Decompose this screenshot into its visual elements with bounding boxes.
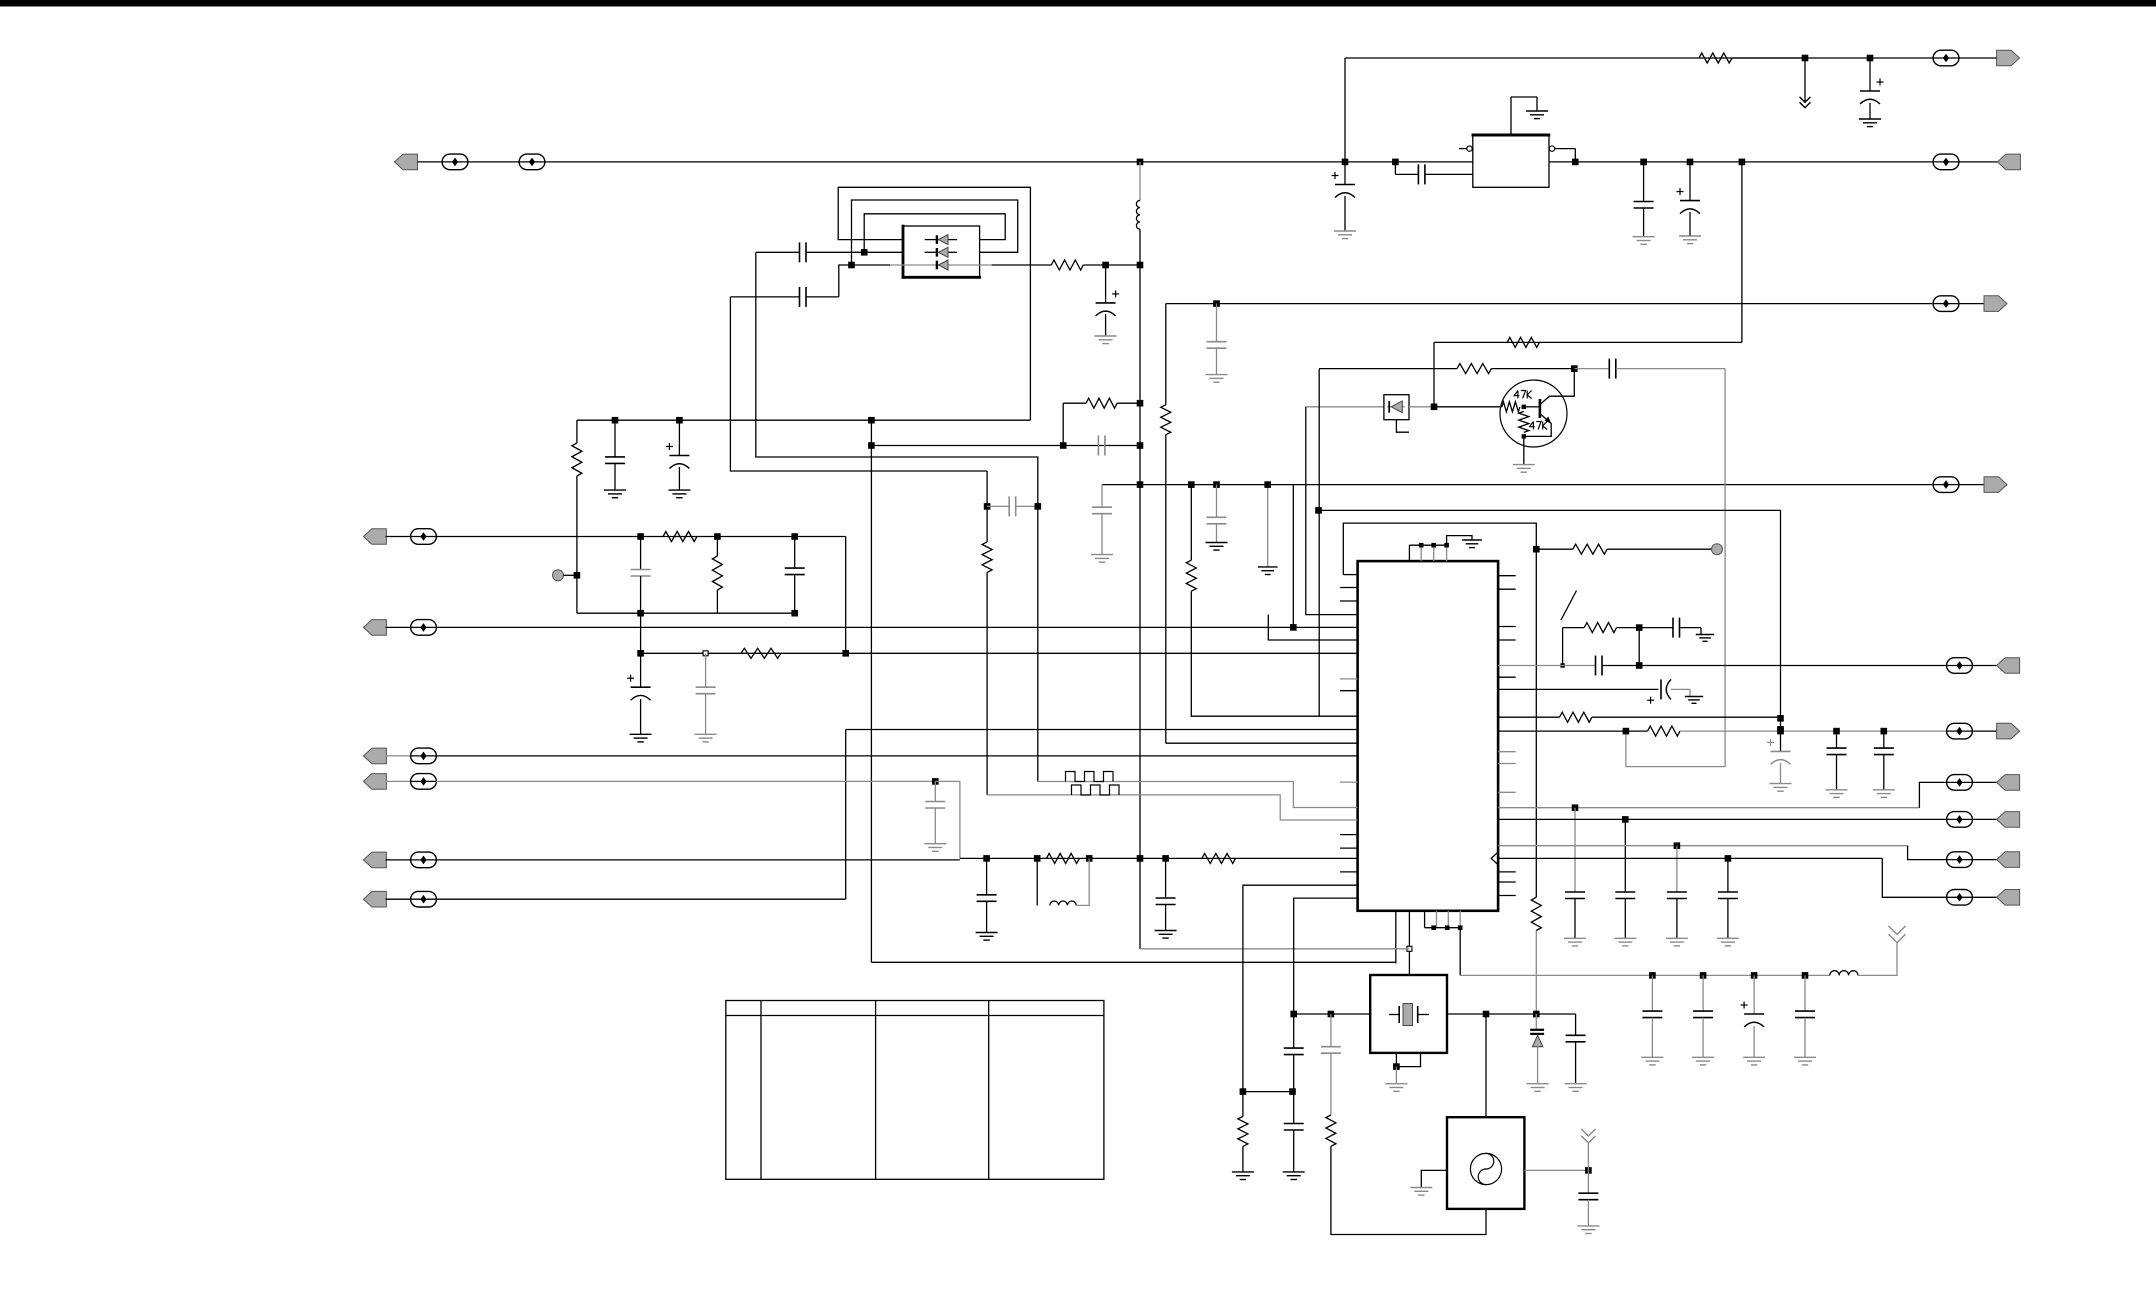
capacitor C-1870 polarized [1860,58,1884,119]
connector oval y897 [1947,890,1973,906]
wire x1639 drop [1638,628,1640,666]
RTC box U2 [1447,1117,1524,1209]
node x1140 y858 [1137,855,1144,862]
node y420 x871 [868,417,875,424]
node J1434 [1431,404,1438,411]
wire R368-J [1491,368,1574,370]
node J1574 [1571,365,1578,372]
ground below C-bank1 [1641,1057,1663,1065]
capacitor C-1625 [1615,819,1635,938]
wire RTC right [1524,1169,1588,1171]
node y858 x1166 [1162,855,1169,862]
wire arrow-oval y860 [386,859,411,861]
wire y484 [1102,484,1932,486]
ground below D-1536 [1527,1084,1549,1092]
wire y506 seg [987,505,1038,507]
wire VIN top y58 [1345,57,1933,59]
wire y407 mid [1409,406,1434,408]
IC clock wedge [1491,852,1498,865]
node RTC right [1585,1167,1592,1174]
wire rail A [545,161,1933,163]
chassis ground arrow below J1805 [1800,58,1811,108]
IC U1 body [1358,561,1499,911]
diode D1 in box [925,235,957,245]
connector oval y756 [411,748,437,764]
input arrow left y627 [363,620,386,636]
capacitor C-1575 [1565,808,1585,939]
capacitor C-1012h gray [1009,496,1016,516]
node y420 x615 [612,417,619,424]
wire VIN drop x1345 [1344,58,1346,162]
wire R-d3 to J [1083,264,1140,266]
node x1293 y1091 [1289,1088,1296,1095]
wire 641 to L4 [640,613,642,653]
connector oval y485 [1933,477,1959,493]
wire row5 [436,859,960,861]
wire y807 to conn [1919,782,1946,807]
crystal gnd tab [1396,1053,1420,1067]
wire row4 gray [436,780,935,782]
capacitor C-fb1 [756,242,864,262]
wire y445 [871,445,1140,447]
wire x1331 vertical [1321,1014,1341,1115]
input arrow right y162 [1997,154,2020,170]
node x1780 y718 [1777,715,1784,722]
IC bottom pin x1409 [1408,911,1410,975]
wire y1091 [1243,1091,1294,1093]
open node L4 x706 [703,651,708,656]
capacitor C-1216a gray [1207,304,1227,375]
wire pin716 [1186,485,1357,717]
node row4 x935 [932,778,939,785]
capacitor C-1728 [1718,858,1738,938]
open node x1409 y949 [1407,946,1412,951]
node y975 x1703 [1700,972,1707,979]
wire pulse gray [1038,782,1358,808]
ground x1268 [1258,567,1278,575]
node y731 x1884 [1881,728,1888,735]
IC bottom pin x1396 [1395,911,1397,964]
node ictop1 [1419,543,1424,548]
wire y963 [871,962,1395,963]
node y731 x1780 [1777,728,1784,735]
wire L2 [577,612,795,614]
node J1106-265 [1102,262,1109,269]
connector oval y781 [411,774,437,790]
node y484 x1191 [1188,481,1195,488]
wire res403 loop [1063,398,1140,445]
wire oval-arrow y58 [1959,57,1997,59]
node y807 x1575 [1572,804,1579,811]
input arrow left y860 [363,852,386,868]
wire D3 left lead [852,264,891,266]
wire outer loop [838,187,1030,420]
node y484 x1268 [1264,481,1271,488]
table frame [726,1001,1104,1180]
wire C689 gnd [1671,689,1703,703]
zener box D-Z [1384,395,1409,420]
wire arrow-oval y627 [386,626,411,628]
resistor R-47K-b [1519,411,1529,432]
ground below C-1345 [1334,231,1356,239]
ground below C-679 [668,490,690,498]
pin circle right U-REG [1549,146,1575,162]
node y1014 x1331 [1328,1011,1335,1018]
wire x1460 down [1459,928,1461,976]
node y665 x1563 [1560,663,1564,667]
wire y1014 right [1447,1013,1576,1015]
node L1 x795 [791,533,798,540]
ground below C-1677 [1666,938,1688,946]
wire C-reg to box [1425,173,1473,175]
wire pin614 from zener [1306,407,1358,615]
capacitor C-1102h gray [1098,436,1105,456]
node x1140 y484 [1137,481,1144,488]
ground below C-1106 [1095,336,1117,344]
node x1242 y1091 [1240,1088,1247,1095]
ground below C-935 [924,844,946,852]
node y819 x1625 [1622,816,1629,823]
connector oval y162 b [519,154,545,170]
crystal box X1 [1370,975,1447,1053]
wire x1293 vertical [1292,485,1294,628]
wire xtal gnd [1395,1067,1397,1084]
ground below C-1690 [1679,236,1701,244]
node J1870 [1867,55,1874,62]
ground below C-1216b [1206,543,1228,551]
connector oval y58 [1933,50,1959,66]
connector oval y666 [1947,658,1973,674]
capacitor C-fb2 [730,287,838,307]
resistor R-549 [1536,544,1711,554]
capacitor C-615 [605,420,625,490]
node y731 x1626 [1623,728,1630,735]
input arrow right y819 [1997,812,2020,828]
node x1780 y730 [1777,726,1784,733]
node fb1 [861,249,868,256]
capacitor C-1102v gray [1092,485,1112,555]
table col line 1 [760,1001,762,1180]
node icbot1 [1431,925,1436,930]
table header line [726,1015,1104,1017]
capacitor C-reg-in [1418,164,1425,184]
input arrow right y859 [1997,852,2020,868]
wire arrow-oval y536 [386,536,411,538]
wire res627 net [1563,623,1673,633]
node A x1345 [1342,159,1349,166]
output arrow y731 [1997,723,2020,739]
connector oval y162 a [442,154,468,170]
node y420 x679 [676,417,683,424]
wire reg input stub [1395,162,1418,175]
node x987 y506 [984,503,991,510]
connector oval y819 [1947,812,1973,828]
connector oval y162 right [1933,154,1959,170]
input arrow left y781 [363,774,386,790]
node xtal gnd [1393,1063,1400,1070]
node y731 x1836 [1833,728,1840,735]
node y858 x1089 [1086,855,1093,862]
node y1014 x1486 [1483,1011,1490,1018]
table col line 3 [988,1001,990,1180]
wire y407 to Q1 [1434,406,1502,408]
wire x1434 drop [1433,342,1435,406]
wire U-REG gnd tab [1511,97,1537,135]
wire y407 left [1306,406,1384,408]
wire arrow-oval y162 [418,161,443,163]
connector oval y782 [1947,775,1973,791]
wire oval-oval y162 [468,161,519,163]
node Q1 base node [1522,405,1526,409]
wire pulse black [982,471,1358,820]
wire y717 [1498,712,1780,722]
wire R1331 to RTC [1331,1146,1486,1234]
input arrow left y899 [363,891,386,907]
diode D3 in box [890,260,992,270]
capacitor C-935 gray [925,781,945,843]
wire L1 corner down [845,537,847,654]
antenna chevron [1888,926,1905,943]
wire oval-arrow y731 [1972,730,1996,732]
capacitor C-1673h [1673,618,1680,638]
wire oval-arrow y666 [1972,665,1996,667]
node y1014 x1536 [1533,1011,1540,1018]
pulse glyph 1 [1066,772,1114,782]
node L1 x717 [714,533,721,540]
wire y303 [1166,303,1932,305]
resistor R-342 [1507,337,1539,347]
output arrow y303 [1984,296,2007,312]
resistor R-717 vertical [712,537,722,614]
ground below C-615 [604,490,626,498]
node icbot3 [1458,925,1463,930]
wire pin897b [1294,898,1358,1048]
capacitor C-1643 [1634,162,1654,237]
input arrow left y536 [363,529,386,545]
ground U-REG [1526,111,1548,119]
capacitor C-bank4 [1795,975,1815,1057]
label 47K b [1530,422,1547,430]
node J1805 [1802,55,1809,62]
resistor R-1331 [1326,1115,1336,1146]
input arrow right y666 [1997,658,2020,674]
capacitor C-689 polarized h [1647,679,1671,703]
node L2 x641 [637,610,644,617]
node L2 x795 [791,610,798,617]
node J1140-265 [1137,262,1144,269]
capacitor C-368 [1574,359,1725,379]
switch lever [1561,591,1577,621]
node y975 x1652 [1649,972,1656,979]
capacitor C-987 [977,858,997,932]
node y484 x1216 [1213,481,1220,488]
input arrow left y756 [363,748,386,764]
node A x1395 [1392,159,1399,166]
ground below C-1870 [1859,119,1881,127]
ground below C-1293b [1283,1172,1305,1180]
wire D2 left lead [864,251,903,253]
wire fb2 step [839,265,852,297]
wire x1725 gray loop [1626,369,1725,767]
wire oval-arrow y819 [1972,818,1996,820]
resistor R-47K-a [1502,402,1520,412]
wire L1 [436,536,845,538]
wire y975 [1460,974,1830,976]
node Q1 emitter node [1522,434,1526,438]
capacitor C-795 [785,537,805,614]
wire y420 [577,419,1031,421]
ground Q1 [1513,465,1535,473]
wire y819 [1498,818,1947,820]
wire loop2 [852,200,1018,265]
wire y858r [1498,857,1882,859]
wire row6 [436,898,845,900]
connector oval y899 [411,891,437,907]
wire fb2 down-right [730,297,987,471]
wire y665 [1498,665,1947,667]
resistor R-577 vertical [572,420,582,613]
node L1 x641 [637,533,644,540]
wire L3 row2 [436,626,1357,628]
crystal glyph [1389,1004,1429,1026]
node x1536 y549 [1533,546,1540,553]
wire D3 out [992,264,1052,266]
ground below C-987 [976,933,998,941]
ground below C-1643 [1633,237,1655,245]
resistor R-368 [1457,364,1491,374]
capacitor C-bank3 [1741,975,1765,1057]
node A x1742 [1739,159,1746,166]
capacitor C-bank1 [1642,975,1662,1057]
wire RTC top [1485,1014,1487,1117]
zener gnd tab [1396,420,1409,433]
wire x1536 vertical [1535,549,1537,1014]
resistor R-858b [1202,853,1236,863]
wire y342 [1434,341,1742,343]
wire loop3 [864,214,1005,253]
transistor Q1 base bar [1539,399,1542,418]
wire arrow-oval y899 [386,898,411,900]
wire x1742 drop [1741,162,1743,343]
node A x1643 [1640,159,1647,166]
node x1038 y506 [1035,503,1042,510]
connector oval y860 [411,852,437,868]
node y665 x1639 [1636,662,1643,669]
transistor Q1 circle [1500,380,1567,447]
ground RTC left [1410,1188,1432,1196]
ground below C-641b [630,734,652,742]
node probe [574,572,581,579]
node y403 x1140 [1137,400,1144,407]
wire pin640 [1268,615,1357,640]
connector oval y303 [1933,296,1959,312]
wire C1673 gnd [1680,628,1715,642]
wire L4 [641,652,1358,654]
ground below C-1216a [1206,375,1228,383]
node ictop3 [1444,543,1449,548]
ground below C-bank3 [1743,1057,1765,1065]
capacitor C-1677 [1667,846,1687,939]
resistor R-1536 [1531,897,1541,930]
node y445 x1140 [1137,442,1144,449]
wire y845 to conn [1908,846,1947,860]
wire x1038 vertical [1037,506,1039,781]
zener D-1536 [1530,1014,1544,1084]
wire x1140 vertical [1139,265,1141,949]
gray probe circle [553,570,577,581]
node y1014 x1293 [1290,1011,1297,1018]
node x871 y445 [868,442,875,449]
ground below C-1836 [1826,790,1848,798]
capacitor C-1588 [1578,1170,1598,1226]
antenna wire [1858,943,1897,975]
capacitor C-1576 [1566,1035,1586,1083]
ground below C-1588 [1577,1226,1599,1234]
node y975 x1805 [1802,972,1809,979]
resistor R-1242 [1238,1092,1248,1172]
connector oval y731 [1947,723,1973,739]
capacitor C-641b polarized [627,653,651,734]
ground below R-1242 [1232,1172,1254,1180]
capacitor C-1166 [1156,858,1176,930]
node y975 x1754 [1751,972,1758,979]
wire RTC left [1421,1170,1447,1187]
transistor Q1 emitter [1524,414,1551,437]
wire Q1 gnd [1523,436,1525,464]
wire pin574 [1343,574,1357,576]
wire oval-arrow y859 [1972,859,1996,861]
wire oval-arrow y303 [1959,303,1984,305]
wire L5 row3 [436,755,1357,757]
capacitor C-1600h [1596,656,1603,676]
node A x1140 [1137,159,1144,166]
gray gnd stub x1268 [1267,485,1269,567]
resistor R-858a [1046,853,1079,863]
node L3 x1293 [1290,624,1297,631]
wire y689 [1498,688,1658,690]
input arrow left y162 [395,154,418,170]
pin circle left U-REG [1459,146,1472,151]
node L4 x846 [842,650,849,657]
gray circle y549 [1712,544,1723,555]
ground below C-1625 [1614,938,1636,946]
node A x1575 [1572,159,1579,166]
capacitor C-1345 polarized [1332,162,1356,231]
resistor R-L4 [741,648,781,658]
wire x1563 drop [1562,628,1564,666]
wire x1319 vertical [1318,369,1320,717]
antenna RTC chevron [1581,1129,1595,1143]
wire ictop gnd [1447,536,1472,546]
capacitor C-bank2 [1693,975,1713,1057]
wire oval-arrow y897 [1972,896,1996,898]
ground below C-bank4 [1794,1057,1816,1065]
ground below C-1576 [1565,1084,1587,1092]
wire oval-arrow y485 [1959,484,1984,486]
connector oval y627 [411,620,437,636]
node ictop2 [1431,543,1436,548]
resistor R-1166 [1161,405,1171,435]
capacitor C-1106 polarized [1096,265,1120,336]
input arrow right y782 [1997,775,2020,791]
wire x1166 vertical [1166,304,1358,744]
node y845 x1677 [1674,842,1681,849]
wire y949 [1140,948,1409,950]
pulse glyph 2 [1072,785,1120,795]
transistor Q1 collector [1540,369,1574,405]
ground below C-1780 [1770,784,1792,792]
label 47K a [1514,391,1531,399]
